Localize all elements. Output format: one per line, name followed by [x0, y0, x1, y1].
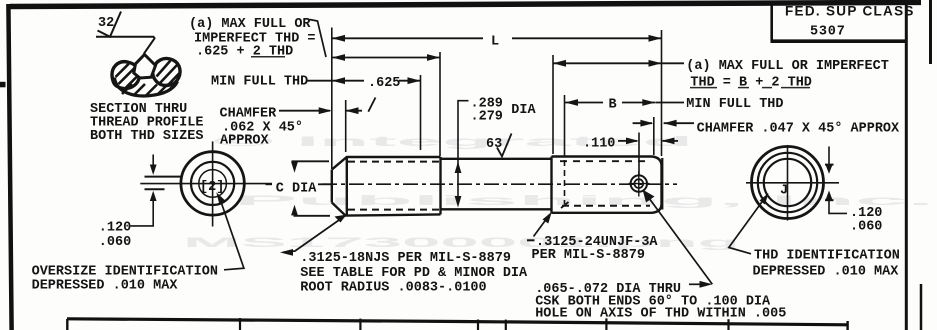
svg-text:CHAMFER: CHAMFER: [220, 107, 278, 122]
svg-text:DIA: DIA: [511, 103, 536, 118]
svg-text:L: L: [491, 35, 499, 50]
svg-text:.625: .625: [368, 76, 400, 91]
svg-text:THD IDENTIFICATION: THD IDENTIFICATION: [754, 249, 900, 264]
svg-text:5307: 5307: [810, 24, 846, 39]
svg-text:B: B: [609, 98, 617, 113]
svg-text:PER MIL-S-8879: PER MIL-S-8879: [532, 248, 645, 263]
svg-text:.279: .279: [471, 110, 503, 125]
svg-text:BOTH THD SIZES: BOTH THD SIZES: [90, 129, 203, 144]
svg-text:HOLE ON AXIS OF THD WITHIN .00: HOLE ON AXIS OF THD WITHIN .005: [535, 306, 786, 321]
svg-text:MIN FULL THD: MIN FULL THD: [211, 74, 308, 89]
svg-text:[2]: [2]: [200, 180, 224, 195]
svg-text:FED. SUP CLASS: FED. SUP CLASS: [785, 3, 915, 18]
svg-text:APPROX: APPROX: [220, 134, 270, 149]
svg-text:J: J: [780, 184, 788, 199]
svg-text:.110: .110: [583, 136, 615, 151]
svg-text:OVERSIZE IDENTIFICATION: OVERSIZE IDENTIFICATION: [32, 265, 218, 280]
svg-text:(a) MAX FULL OR IMPERFECT: (a) MAX FULL OR IMPERFECT: [686, 59, 889, 74]
svg-text:DEPRESSED .010 MAX: DEPRESSED .010 MAX: [753, 265, 900, 280]
svg-text:MIN FULL THD: MIN FULL THD: [686, 97, 783, 112]
svg-text:63: 63: [486, 137, 502, 152]
svg-text:.3125-18NJS PER MIL-S-8879: .3125-18NJS PER MIL-S-8879: [300, 251, 511, 266]
svg-text:.120: .120: [99, 221, 131, 236]
svg-text:ROOT RADIUS .0083-.0100: ROOT RADIUS .0083-.0100: [300, 281, 486, 296]
svg-text:DEPRESSED .010 MAX: DEPRESSED .010 MAX: [32, 279, 179, 294]
svg-text:.060: .060: [99, 235, 131, 250]
svg-text:CHAMFER .047 X 45° APPROX: CHAMFER .047 X 45° APPROX: [697, 122, 900, 137]
svg-text:.060: .060: [850, 220, 882, 235]
svg-text:32: 32: [98, 16, 114, 31]
svg-text:C DIA: C DIA: [276, 181, 317, 196]
svg-text:(a) MAX FULL OR: (a) MAX FULL OR: [189, 17, 311, 32]
svg-text:SEE TABLE FOR PD & MINOR DIA: SEE TABLE FOR PD & MINOR DIA: [300, 266, 528, 281]
